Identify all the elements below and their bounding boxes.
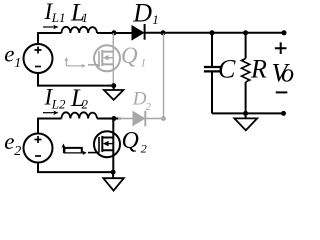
label e2 — [4, 129, 21, 159]
resistor R lower wire — [245, 82, 247, 113]
node D2 cathode corner dot (gray) — [161, 116, 166, 121]
output - terminal dot — [281, 111, 286, 116]
capacitor C — [204, 67, 221, 71]
svg-text:1: 1 — [82, 10, 89, 25]
node D junction dot — [111, 116, 116, 121]
gate signal pulse Q2 — [61, 144, 86, 156]
mosfet Q1 (inactive, gray) drain-source vertical wire — [112, 33, 114, 86]
label IL1 — [44, 0, 66, 25]
current arrow IL2 — [43, 111, 59, 115]
wire e1 bottom riser — [38, 73, 114, 86]
label L1 — [70, 0, 88, 27]
wire top rail left segment — [37, 32, 61, 34]
inductor L2 — [62, 112, 98, 118]
svg-text:e: e — [4, 42, 14, 67]
svg-text:2: 2 — [141, 141, 147, 155]
mosfet Q1 (inactive, gray) — [88, 45, 120, 71]
svg-text:Q: Q — [122, 128, 139, 154]
svg-text:R: R — [250, 55, 267, 84]
svg-text:Q: Q — [121, 43, 138, 68]
wire e2 top riser — [37, 119, 39, 134]
wire L2 to node D — [97, 118, 121, 120]
wire e2 bottom riser and phase2 bottom rail — [38, 163, 113, 173]
svg-text:D: D — [132, 0, 152, 27]
ground phase 2 — [103, 172, 124, 191]
junction dot output ground node — [243, 111, 248, 116]
capacitor C branch upper wire — [211, 33, 213, 66]
diode D2 (inactive, gray) — [118, 111, 164, 127]
wire phase2 rail left segment — [37, 118, 61, 120]
capacitor C lower wire — [211, 73, 213, 114]
output + terminal dot — [282, 30, 287, 35]
svg-text:Vo: Vo — [272, 58, 295, 87]
label e1 — [4, 42, 21, 72]
current arrow IL1 — [43, 25, 59, 29]
ground phase 1 — [104, 86, 124, 100]
svg-text:1: 1 — [14, 56, 21, 71]
svg-text:L2: L2 — [51, 96, 66, 111]
wire D2 riser to top rail (gray) — [163, 34, 165, 119]
label D2 (gray) — [132, 89, 152, 113]
inductor L1 — [62, 27, 98, 33]
ground output — [234, 113, 257, 130]
label D1 — [132, 0, 159, 27]
svg-text:L1: L1 — [51, 10, 66, 25]
output + sign — [275, 42, 287, 54]
output bottom rail — [212, 112, 284, 114]
resistor R branch upper wire — [245, 33, 247, 59]
wire L1 to node A — [97, 32, 132, 34]
gate signal axes Q1 (gray) — [64, 57, 86, 68]
junction dot phase1 ground node — [111, 83, 116, 88]
mosfet Q2 — [88, 131, 120, 157]
node C-branch junction dot — [210, 30, 215, 35]
node A junction dot — [112, 30, 117, 35]
diode D1 — [132, 24, 145, 40]
svg-text:C: C — [218, 55, 236, 84]
voltage source e2 — [24, 134, 53, 163]
junction dot phase2 ground node — [111, 170, 116, 175]
node R-branch junction dot — [243, 30, 248, 35]
label IL2 — [44, 85, 67, 112]
output - sign — [276, 91, 288, 93]
svg-text:2: 2 — [82, 96, 89, 111]
label Q2 — [122, 128, 147, 156]
resistor R zigzag — [242, 59, 250, 83]
svg-text:1: 1 — [140, 56, 146, 70]
wire e1 top riser — [37, 33, 39, 44]
svg-text:2: 2 — [14, 144, 21, 159]
svg-text:1: 1 — [152, 12, 159, 27]
node B junction dot — [161, 30, 166, 35]
svg-text:e: e — [4, 129, 14, 154]
label L2 — [70, 85, 89, 112]
voltage source e1 — [24, 44, 53, 73]
mosfet Q2 drain-source vertical wire — [112, 119, 114, 173]
label Q1 (gray) — [121, 43, 146, 70]
svg-text:2: 2 — [146, 101, 152, 113]
wire top rail right segment — [145, 32, 285, 34]
